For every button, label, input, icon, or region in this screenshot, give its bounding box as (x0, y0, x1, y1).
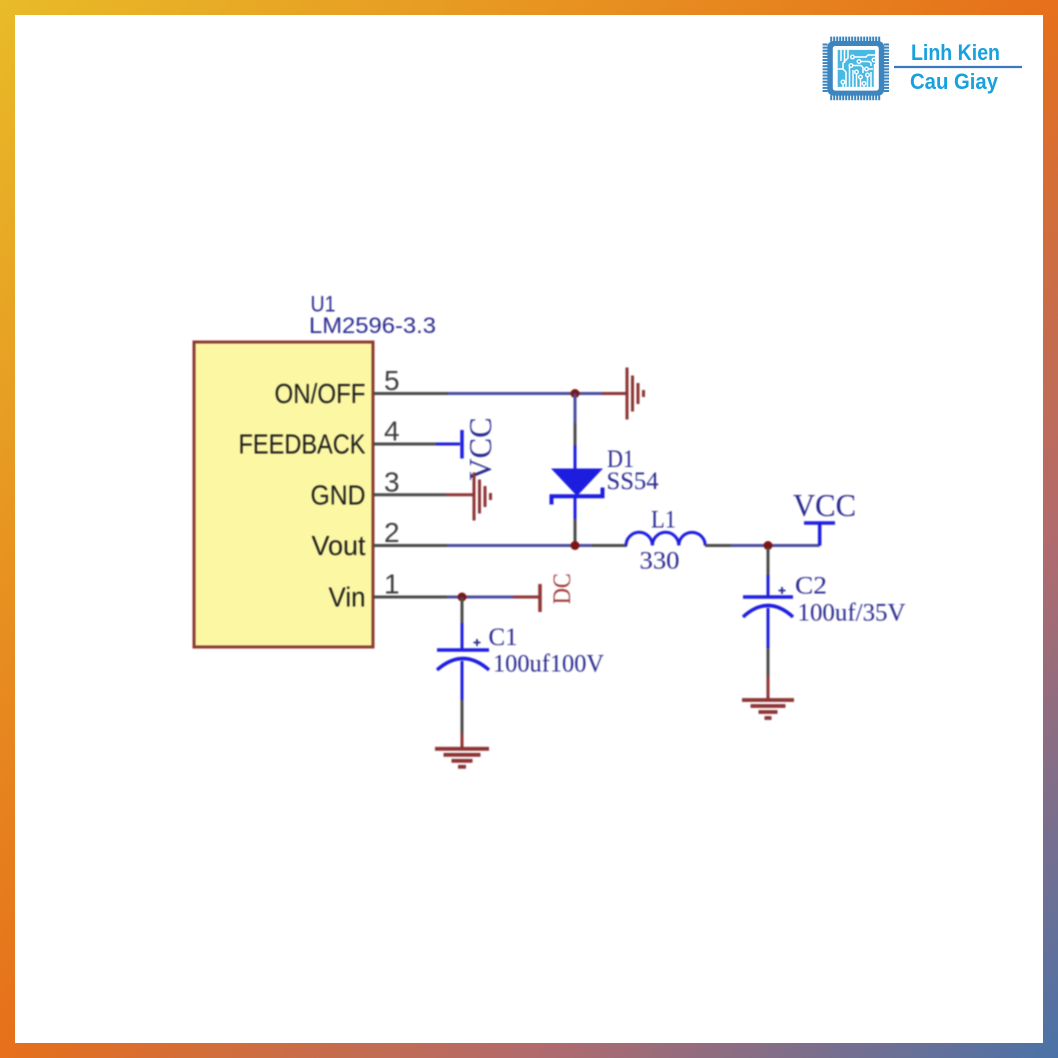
capacitor C1 plus sign (474, 639, 481, 646)
wire C2 to ground (red) (767, 675, 770, 700)
diode D1 top pin (gray) (574, 423, 577, 445)
inductor L1 left pin (gray) (592, 544, 627, 547)
svg-text:Linh Kien: Linh Kien (911, 40, 1000, 65)
wire junction down (blue) (574, 394, 577, 424)
ground symbol below C2 (742, 700, 794, 718)
wire pin3 to ground (red) (446, 493, 474, 496)
pin 3 GND stub (373, 493, 446, 496)
wire pin5 to junction (448, 392, 602, 395)
wire to DC connector (red) (513, 596, 540, 599)
capacitor C2 plus sign (779, 587, 786, 594)
inductor L1 right pin (gray) (705, 544, 731, 547)
capacitor C1 top lead (461, 623, 464, 650)
diode D1 triangle (551, 469, 603, 497)
power port VCC bar (pin4) (460, 430, 464, 459)
svg-text:Cau Giay: Cau Giay (910, 69, 999, 94)
ground GND symbol at pin3 (474, 473, 491, 521)
pin 4 FEEDBACK stub (373, 443, 436, 446)
IC U1 body (194, 342, 373, 647)
pin 2 Vout stub (373, 544, 447, 547)
C1 bottom pin (gray) (461, 700, 464, 733)
diode D1 cathode lead (574, 496, 577, 519)
power port VCC riser (right) (804, 523, 835, 546)
junction node pin5/diode (571, 389, 580, 398)
junction node diode/inductor (571, 541, 580, 550)
diode D1 schottky cathode bar (552, 488, 603, 505)
wire junction down to C1 (gray) (461, 597, 464, 623)
capacitor C2 top lead (767, 575, 770, 597)
wire junction down to C2 (gray) (767, 548, 770, 575)
pin 5 ON/OFF stub (373, 392, 448, 395)
wire junction to ground (red) (602, 392, 627, 395)
DC connector bar (538, 584, 542, 612)
C2 bottom pin (gray) (767, 648, 770, 675)
wire inductor to VCC/C2 (731, 544, 820, 547)
junction node C1 (458, 593, 467, 602)
logo divider line (894, 66, 1022, 68)
wire Vout to diode junction (447, 544, 592, 547)
wire C1 to ground (red) (461, 733, 464, 749)
logo chip icon (823, 37, 889, 101)
capacitor C2 bottom lead (767, 608, 770, 648)
capacitor C1 top plate (437, 648, 489, 652)
wire pin4 to VCC port (436, 443, 460, 446)
pin 1 Vin stub (373, 596, 447, 599)
diode D1 bottom pin (gray) (574, 519, 577, 543)
inductor L1 coil (626, 532, 705, 545)
capacitor C1 bottom lead (461, 661, 464, 700)
ground symbol below C1 (435, 749, 489, 767)
capacitor C1 curved plate (437, 659, 489, 671)
capacitor C2 curved plate (743, 606, 793, 618)
junction node C2 (764, 541, 773, 550)
diode D1 anode lead (574, 445, 577, 470)
capacitor C2 top plate (743, 595, 793, 599)
wire Vin junction to DC (blue) (447, 596, 513, 599)
ground GND symbol right of pin5 (627, 368, 644, 420)
